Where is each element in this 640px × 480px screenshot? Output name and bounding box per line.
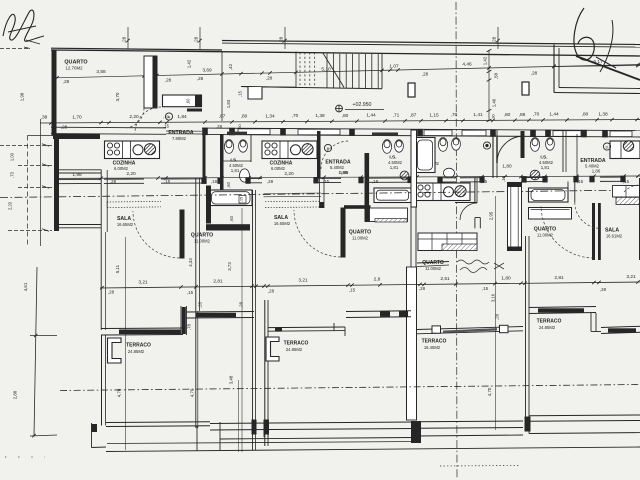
svg-text:,70: ,70 <box>292 113 299 119</box>
svg-text:,15: ,15 <box>482 286 489 291</box>
door quarto3 leaf <box>592 203 595 260</box>
svg-text:1,42: 1,42 <box>483 56 488 65</box>
svg-text:,87: ,87 <box>410 112 417 118</box>
svg-text:,15: ,15 <box>501 175 506 181</box>
wall parapet u2 <box>210 422 414 424</box>
svg-text:,78: ,78 <box>187 323 192 329</box>
wall corner middle room <box>475 217 480 219</box>
svg-text:A: A <box>168 114 171 119</box>
svg-text:,28: ,28 <box>419 286 426 291</box>
svg-text:,87: ,87 <box>219 114 226 120</box>
door quarto2 leaf <box>341 208 346 258</box>
svg-text:,28: ,28 <box>197 76 204 81</box>
svg-text:,70: ,70 <box>451 112 458 118</box>
fixture kitchen counter unit2 <box>262 141 317 159</box>
fixture cabinet under tub2 <box>370 208 408 222</box>
node circle D <box>603 143 610 150</box>
wall u2 terrace top <box>268 326 345 329</box>
svg-text:1,98: 1,98 <box>72 172 82 178</box>
dimension .28 top tick 3 <box>284 27 286 49</box>
wall under bathtub1 <box>206 224 250 230</box>
svg-text:,71: ,71 <box>393 113 400 119</box>
door entrada1 arc <box>135 107 161 133</box>
beam dotted strip unit1 <box>107 200 161 203</box>
wall is2 left <box>365 153 370 222</box>
svg-text:2,20: 2,20 <box>129 114 139 120</box>
svg-text:,60: ,60 <box>186 98 191 104</box>
wall parapet u1 <box>106 421 210 424</box>
svg-text:12.70M2: 12.70M2 <box>65 66 83 71</box>
wall u3 terrace top band <box>417 327 523 330</box>
node circle B <box>324 144 331 151</box>
svg-text:1,44: 1,44 <box>366 113 376 119</box>
beam dotted strip unit4 <box>613 186 640 198</box>
svg-text:1,98: 1,98 <box>20 92 25 101</box>
svg-text:,38: ,38 <box>41 115 48 121</box>
wall entrada3 left <box>576 134 578 178</box>
wall u3 shaft lower <box>407 267 417 420</box>
wall u1 sala right pair <box>195 178 197 311</box>
fixture drain circle is2 <box>400 171 409 180</box>
dimension chain lower <box>100 282 640 288</box>
svg-text:4,46: 4,46 <box>462 62 472 68</box>
dimension vertical chain x489 <box>488 50 490 121</box>
wire guide vertical x125 <box>125 237 127 450</box>
svg-text:4,61: 4,61 <box>23 282 28 291</box>
wall parapet u4 <box>529 414 640 417</box>
wall shaft quarto1 right <box>144 56 157 108</box>
svg-text:3,73: 3,73 <box>227 262 232 271</box>
wall exterior left <box>52 50 57 136</box>
fixture wc pair is1 <box>224 140 233 154</box>
svg-text:1,80: 1,80 <box>501 275 511 281</box>
staircase with risers <box>241 87 382 89</box>
wall is1 left <box>220 134 224 190</box>
svg-text:,15: ,15 <box>239 197 243 202</box>
margin dash c <box>18 187 52 189</box>
wall is1 mid <box>250 135 252 162</box>
wall bottom stubs <box>252 420 257 435</box>
svg-text:4,70: 4,70 <box>487 387 492 396</box>
wall quarto1 bottom <box>186 311 254 314</box>
svg-text:5,11: 5,11 <box>115 264 120 273</box>
svg-text:1,86: 1,86 <box>340 170 349 175</box>
svg-text:,80: ,80 <box>241 113 248 119</box>
svg-text:6.00M2: 6.00M2 <box>271 166 286 171</box>
svg-text:,28: ,28 <box>267 179 274 184</box>
svg-text:4,33: 4,33 <box>188 258 193 267</box>
wall connector quarto1 <box>180 306 182 335</box>
svg-text:2,20: 2,20 <box>126 171 136 177</box>
fixture wc pair is2 <box>382 140 391 154</box>
svg-text:11.00M2: 11.00M2 <box>425 266 442 271</box>
planter u2 <box>266 337 279 361</box>
wire bottom closure u4 <box>528 421 530 433</box>
svg-text:24.85M2: 24.85M2 <box>286 347 303 352</box>
door middle room arc <box>460 203 477 220</box>
svg-text:3,16: 3,16 <box>491 293 496 302</box>
wire bottom closure u2 <box>263 430 265 437</box>
wall right roof edge <box>553 45 555 93</box>
svg-text:6.00M2: 6.00M2 <box>114 166 129 171</box>
dimension .28 top tick 1 <box>127 27 129 49</box>
handwritten diagonal stroke <box>576 56 640 80</box>
wall sala1 bottom <box>101 327 183 330</box>
fixture bathtub unit3 vertical <box>415 138 435 173</box>
svg-text:,28: ,28 <box>268 289 275 294</box>
svg-text:2,95: 2,95 <box>489 211 494 220</box>
svg-text:3,21: 3,21 <box>298 278 308 284</box>
wall party u1u2 pair <box>252 190 254 450</box>
svg-text:1,81: 1,81 <box>541 165 550 170</box>
margin bottom dots <box>5 456 45 458</box>
svg-text:24.85M2: 24.85M2 <box>539 325 556 330</box>
svg-text:,80: ,80 <box>582 111 589 117</box>
handwritten note sala <box>457 260 504 273</box>
wall sala4 right edge <box>639 178 640 260</box>
svg-text:,28: ,28 <box>108 290 115 295</box>
wall quarto2 bottom <box>346 310 411 313</box>
wall u2 terrace step <box>333 323 335 331</box>
svg-text:TERRACO: TERRACO <box>284 341 309 347</box>
wall apartments top row <box>51 126 166 129</box>
wall kitchen4 left black <box>521 131 525 158</box>
fixture drain circle is4 <box>530 170 540 180</box>
svg-text:2,88: 2,88 <box>13 390 18 399</box>
svg-text:,18: ,18 <box>211 179 218 184</box>
wall left of bathtub1 <box>206 186 211 224</box>
svg-text:D: D <box>606 144 609 149</box>
wall corridor x493 <box>492 130 494 178</box>
svg-text:,28: ,28 <box>63 79 70 84</box>
fixture kitchen counter unit3 <box>415 183 470 201</box>
svg-text:,88: ,88 <box>519 112 526 118</box>
wall sala1 left <box>100 170 102 330</box>
axis centerline vertical <box>456 2 457 478</box>
wire guide vertical x495 <box>495 196 497 430</box>
svg-text:,28: ,28 <box>194 36 199 43</box>
wall under kitchen3 <box>455 202 477 204</box>
svg-text:16.65M2: 16.65M2 <box>117 222 134 227</box>
svg-text:1,44: 1,44 <box>549 112 559 118</box>
fixture bathtub unit4 <box>529 188 569 202</box>
door right edge arc <box>624 185 640 192</box>
svg-text:2,20: 2,20 <box>8 201 13 210</box>
svg-text:,15: ,15 <box>187 290 194 295</box>
column pillar 2 <box>522 82 529 95</box>
wall entrada1 top <box>163 95 202 107</box>
svg-text:1,07: 1,07 <box>389 64 399 70</box>
margin vertical dim line <box>34 267 37 436</box>
svg-text:,80: ,80 <box>504 112 511 118</box>
svg-text:,18: ,18 <box>372 179 379 184</box>
svg-text:,28: ,28 <box>600 287 607 292</box>
svg-text:1,84: 1,84 <box>177 114 187 120</box>
svg-text:1,34: 1,34 <box>265 113 275 119</box>
svg-text:,15: ,15 <box>238 90 243 96</box>
svg-text:2,81: 2,81 <box>554 275 564 281</box>
svg-text:1,38: 1,38 <box>598 111 608 117</box>
fixture bathtub unit2 <box>374 188 411 203</box>
svg-text:1,42: 1,42 <box>187 59 192 68</box>
wall quarto3 bottom <box>529 307 596 308</box>
svg-text:24.85M2: 24.85M2 <box>128 349 145 354</box>
svg-text:TERRACO: TERRACO <box>537 319 562 325</box>
door sala4 arc <box>575 202 601 228</box>
wall u1 terrace right lower <box>195 311 197 428</box>
fixture cabinet middle room <box>418 233 477 251</box>
wall party u2u3 upper <box>411 130 417 207</box>
svg-text:,28: ,28 <box>422 72 429 77</box>
wall parapet u3 <box>417 420 523 423</box>
svg-text:,15: ,15 <box>349 288 356 293</box>
svg-text:3,48: 3,48 <box>229 375 234 384</box>
svg-text:2,81: 2,81 <box>213 278 223 284</box>
svg-text:,28: ,28 <box>122 36 127 43</box>
wire top facade inner line <box>51 50 640 56</box>
svg-text:6,17: 6,17 <box>593 59 603 65</box>
wire balcony left edge dashed <box>27 136 29 247</box>
fixture wc pair is3 <box>438 138 447 152</box>
wall landing notch <box>241 86 296 89</box>
svg-text:,28: ,28 <box>266 76 273 81</box>
handwritten loop scribble <box>574 8 594 60</box>
balcony box walls <box>59 169 102 171</box>
svg-text:+02.950: +02.950 <box>353 102 372 108</box>
svg-text:1,86: 1,86 <box>592 169 601 174</box>
wall left landing edge <box>221 51 223 121</box>
wall horiz below bath2 <box>344 205 371 209</box>
svg-text:1,15: 1,15 <box>429 112 439 118</box>
svg-text:4,70: 4,70 <box>190 388 195 397</box>
svg-text:1,81: 1,81 <box>231 168 240 173</box>
svg-text:1,81: 1,81 <box>390 165 399 170</box>
fixture wc pair is4 <box>530 138 539 152</box>
svg-text:,28: ,28 <box>492 36 497 43</box>
svg-text:2,8: 2,8 <box>374 277 381 283</box>
wall sala4 bottom <box>601 326 640 327</box>
svg-text:3,69: 3,69 <box>202 68 212 74</box>
dimension 6,17 line <box>554 66 640 67</box>
svg-text:3,21: 3,21 <box>626 274 636 280</box>
dimension .28 top tick 2 <box>199 27 201 49</box>
node circle C <box>483 142 490 149</box>
column pillar 1 <box>408 83 415 97</box>
svg-text:1,80: 1,80 <box>502 164 512 170</box>
planter u1 <box>108 338 122 363</box>
svg-text:,73: ,73 <box>10 171 15 177</box>
svg-text:B: B <box>327 146 330 151</box>
svg-text:TERRACO: TERRACO <box>422 339 447 345</box>
wall party u3u4 pair <box>525 236 527 420</box>
fixture washbasin is3 <box>444 168 455 178</box>
wall entrada1 right <box>203 131 206 179</box>
svg-text:1,00: 1,00 <box>10 152 15 161</box>
fixture kitchen counter unit4 right <box>610 141 640 159</box>
margin dash a <box>0 145 52 147</box>
svg-text:2,51: 2,51 <box>440 276 450 282</box>
svg-text:1,38: 1,38 <box>315 113 325 119</box>
svg-text:,28: ,28 <box>165 78 172 83</box>
wall is4 right <box>562 131 564 172</box>
dimension .28 top tick 4 <box>497 27 499 49</box>
svg-text:7.80M2: 7.80M2 <box>172 136 187 141</box>
fixture kitchen counter unit1 <box>105 141 160 159</box>
svg-text:11.00M2: 11.00M2 <box>352 236 369 241</box>
door quarto1 leaf <box>180 210 185 259</box>
margin dash top <box>0 48 30 50</box>
wall quarto2 right lower <box>410 207 412 270</box>
wall bottom left corner <box>91 423 93 448</box>
svg-text:,42: ,42 <box>228 63 233 70</box>
svg-text:TERRACO: TERRACO <box>126 343 151 349</box>
margin dash b <box>18 165 52 167</box>
svg-text:1,41: 1,41 <box>473 112 483 118</box>
dimension line mid <box>55 176 640 178</box>
wall cozinha2 right <box>317 131 321 178</box>
wall party u2 corridor pair <box>264 300 266 446</box>
wire left chain guide vertical <box>40 119 42 246</box>
dimension chain main <box>40 120 640 124</box>
svg-text:16.61M2: 16.61M2 <box>606 234 623 239</box>
beam dotted strip unit2 <box>265 200 321 203</box>
svg-text:,28: ,28 <box>198 301 203 307</box>
door entrada3 arc solid <box>497 136 524 163</box>
svg-text:1,40: 1,40 <box>492 98 497 107</box>
svg-text:3,21: 3,21 <box>138 279 148 285</box>
wall right of bathtub4 <box>567 182 569 203</box>
wall sala4 step <box>590 313 592 332</box>
svg-text:11.00M2: 11.00M2 <box>537 233 554 238</box>
wall left-unit top <box>51 48 222 50</box>
svg-text:16.45M2: 16.45M2 <box>424 345 441 350</box>
svg-text:1,83: 1,83 <box>226 99 231 108</box>
wall u1 terrace left lower <box>101 335 103 426</box>
svg-text:,58: ,58 <box>494 72 499 79</box>
node circle A <box>165 113 172 120</box>
svg-text:11.00M2: 11.00M2 <box>194 239 211 244</box>
svg-text:2,20: 2,20 <box>284 171 294 177</box>
svg-text:1,70: 1,70 <box>72 114 82 120</box>
wall left lower black bar <box>54 139 59 231</box>
svg-text:3,58: 3,58 <box>96 69 106 75</box>
svg-text:,70: ,70 <box>533 112 540 118</box>
svg-text:,28: ,28 <box>531 71 538 76</box>
wire bottom closure u3 <box>416 428 418 436</box>
handwritten signature scribble top-left <box>3 10 44 41</box>
margin dash d <box>8 230 52 232</box>
svg-text:3,70: 3,70 <box>115 92 120 101</box>
svg-text:,60: ,60 <box>229 215 234 221</box>
svg-text:,28: ,28 <box>239 301 244 307</box>
axis centerline horizontal lower <box>60 385 640 391</box>
wire guide vertical x242 <box>241 208 243 452</box>
fixture washbasin is1 <box>240 169 250 182</box>
wall is1 wc shelf <box>224 160 252 162</box>
dimension line upper <box>57 65 640 78</box>
axis dots bottom <box>440 465 520 468</box>
fixture bathtub unit1 <box>210 190 253 206</box>
svg-text:,80: ,80 <box>342 113 349 119</box>
door entrada2 arc <box>321 141 349 169</box>
fixture cabinet under tub4 <box>529 208 572 220</box>
svg-text:,60: ,60 <box>226 181 231 187</box>
wire bottom long line <box>106 447 640 452</box>
wall shaft white core <box>508 183 522 251</box>
axis centerline horizontal <box>0 190 640 198</box>
door quarto1 top arc <box>124 108 144 128</box>
svg-text:,28: ,28 <box>279 36 284 43</box>
wall row mid apartments <box>55 178 101 180</box>
level mark +02.950 <box>336 105 343 112</box>
wire top facade outer line <box>222 41 640 45</box>
svg-text:16.65M2: 16.65M2 <box>274 221 291 226</box>
